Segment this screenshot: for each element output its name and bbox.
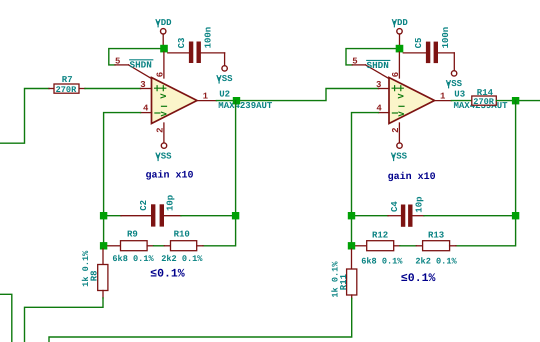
pin 1 output lead U2	[197, 92, 216, 102]
label SHDN (left)	[130, 59, 153, 70]
resistor R13	[416, 230, 456, 250]
svg-text:3: 3	[376, 80, 381, 90]
junction U3 output node	[512, 97, 519, 104]
svg-text:R12: R12	[372, 230, 388, 240]
junction U2 output node	[233, 97, 240, 104]
svg-text:V: V	[397, 93, 407, 99]
svg-text:R11: R11	[339, 273, 349, 290]
junction VDD node (right)	[396, 45, 404, 53]
op-amp U3	[389, 78, 435, 124]
resistor R12	[355, 230, 400, 250]
wire U3 output to R14	[451, 100, 471, 102]
svg-text:≤0.1%: ≤0.1%	[150, 268, 185, 281]
svg-text:1k 0.1%: 1k 0.1%	[331, 261, 341, 298]
svg-text:gain x10: gain x10	[388, 171, 436, 183]
svg-text:2k2 0.1%: 2k2 0.1%	[161, 254, 203, 264]
junction R11/R12 node	[348, 242, 355, 249]
wire U2 output to stage2 input jog	[216, 89, 378, 101]
pin 5 SHDN lead U3	[352, 57, 389, 79]
junction C2 left	[100, 212, 107, 219]
svg-text:R10: R10	[174, 230, 190, 240]
capacitor C2	[104, 195, 236, 227]
resistor R10	[164, 230, 203, 251]
pin 2 V- lead U3	[391, 123, 401, 143]
resistor R7	[49, 75, 85, 95]
wire input net to R7	[0, 89, 49, 144]
pin 3 lead U3	[376, 80, 389, 90]
svg-text:6k8 0.1%: 6k8 0.1%	[112, 254, 154, 264]
svg-text:6k8 0.1%: 6k8 0.1%	[361, 257, 403, 267]
svg-text:R7: R7	[62, 75, 73, 85]
svg-text:270R: 270R	[473, 97, 494, 107]
wire R7 to pin3 U2	[85, 88, 141, 90]
wire pin4 net vertical (left stage)	[104, 113, 141, 246]
junction C4 left	[348, 212, 355, 219]
svg-text:10p: 10p	[414, 196, 424, 212]
pin 4 lead U3	[376, 104, 389, 114]
svg-text:C3: C3	[177, 38, 187, 49]
pin 2 V- lead U2	[156, 123, 166, 143]
op-amp U2	[152, 78, 198, 124]
svg-text:C4: C4	[390, 201, 400, 212]
pin 1 output lead U3	[435, 92, 452, 102]
svg-text:V: V	[159, 111, 169, 117]
svg-text:100n: 100n	[441, 27, 451, 49]
svg-text:1: 1	[440, 92, 446, 102]
resistor R8	[81, 249, 108, 298]
svg-text:V: V	[397, 111, 407, 117]
pin 5 SHDN lead U2	[115, 57, 152, 79]
svg-text:U3: U3	[454, 89, 465, 99]
svg-text:≤0.1%: ≤0.1%	[401, 272, 436, 285]
wire R8 bottom to edge	[25, 298, 104, 342]
svg-text:4: 4	[143, 104, 149, 114]
pin 4 lead U2	[141, 104, 152, 114]
pin 6 V+ lead U2	[156, 52, 166, 78]
wire R11 bottom to edge	[49, 298, 352, 342]
pin 6 V+ lead U3	[391, 52, 401, 78]
resistor R9	[107, 230, 154, 251]
junction VDD node (left)	[160, 45, 168, 53]
svg-text:6: 6	[391, 72, 401, 77]
svg-text:gain x10: gain x10	[146, 170, 194, 182]
svg-text:C2: C2	[139, 200, 149, 211]
svg-text:2: 2	[156, 127, 166, 132]
wire R14 to output node	[496, 100, 540, 102]
wire VDD rail to SHDN loop	[109, 49, 162, 65]
power VSS (right of C5)	[446, 71, 463, 89]
wire VDD rail to SHDN loop (right)	[346, 49, 398, 65]
wire feedback right vertical (right stage)	[456, 101, 516, 246]
power VSS (below U2)	[155, 143, 172, 162]
power VDD (right)	[392, 18, 409, 45]
wire pin4 net vertical (right stage)	[352, 113, 379, 246]
label SHDN (right)	[367, 60, 390, 71]
svg-text:5: 5	[115, 57, 120, 67]
power VDD (left)	[155, 18, 172, 45]
svg-text:R13: R13	[428, 230, 444, 240]
capacitor C3	[168, 27, 225, 66]
junction R8/R9 node	[100, 242, 107, 249]
resistor R14	[472, 88, 497, 107]
svg-text:2: 2	[391, 127, 401, 132]
svg-text:270R: 270R	[56, 85, 77, 95]
power VSS (below U3)	[391, 143, 408, 162]
svg-text:10p: 10p	[165, 195, 175, 211]
wire R9 to R10	[154, 245, 165, 247]
wire stray left edge	[0, 294, 12, 342]
junction C2 right	[232, 212, 239, 219]
wire R12 to R13	[400, 245, 416, 247]
svg-text:1k 0.1%: 1k 0.1%	[81, 250, 91, 287]
pin 3 lead U2	[140, 80, 151, 90]
svg-text:3: 3	[140, 80, 145, 90]
wire feedback right vertical (left stage)	[203, 101, 236, 246]
svg-text:5: 5	[352, 57, 357, 67]
svg-text:SHDN: SHDN	[367, 60, 389, 71]
svg-text:100n: 100n	[204, 27, 214, 49]
svg-text:6: 6	[156, 72, 166, 77]
power VSS (right of C3)	[216, 66, 233, 84]
junction C4 right	[512, 212, 519, 219]
svg-text:MAX4239AUT: MAX4239AUT	[218, 101, 273, 111]
svg-text:2k2 0.1%: 2k2 0.1%	[415, 257, 457, 267]
capacitor C4	[352, 196, 516, 226]
svg-text:V: V	[159, 93, 169, 99]
capacitor C5	[403, 27, 454, 71]
svg-text:R9: R9	[127, 230, 138, 240]
svg-text:C5: C5	[414, 38, 424, 49]
svg-text:1: 1	[203, 92, 209, 102]
svg-text:U2: U2	[219, 89, 230, 99]
svg-text:SHDN: SHDN	[130, 59, 152, 70]
resistor R11	[331, 249, 357, 298]
